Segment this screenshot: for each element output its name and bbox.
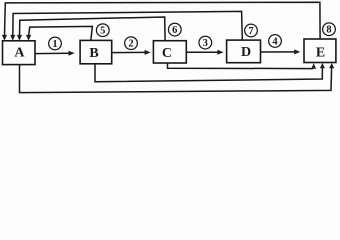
- svg-text:4: 4: [272, 37, 278, 48]
- svg-text:E: E: [316, 45, 325, 60]
- svg-text:8: 8: [326, 25, 331, 36]
- svg-text:A: A: [14, 46, 25, 61]
- svg-text:5: 5: [100, 26, 105, 37]
- svg-text:D: D: [241, 45, 251, 60]
- svg-text:B: B: [89, 46, 98, 61]
- svg-text:3: 3: [203, 38, 208, 49]
- svg-text:7: 7: [248, 26, 253, 37]
- svg-text:1: 1: [52, 39, 57, 50]
- svg-text:2: 2: [128, 39, 133, 50]
- svg-text:6: 6: [172, 25, 177, 36]
- svg-text:C: C: [162, 46, 172, 61]
